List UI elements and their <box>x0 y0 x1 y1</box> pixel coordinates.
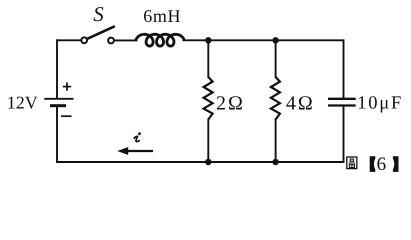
svg-text:12V: 12V <box>7 92 38 112</box>
svg-text:4Ω: 4Ω <box>286 92 315 114</box>
svg-text:S: S <box>93 2 104 26</box>
svg-text:10μF: 10μF <box>357 93 403 113</box>
svg-text:6: 6 <box>377 154 387 175</box>
svg-text:6mH: 6mH <box>143 6 181 26</box>
svg-text:2Ω: 2Ω <box>216 92 245 114</box>
